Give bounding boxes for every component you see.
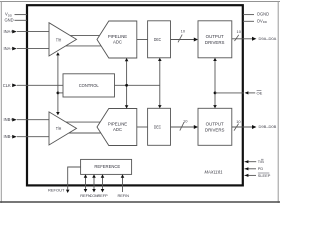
wire clock vertical to PIPELINE ADCs bbox=[126, 60, 128, 106]
bus slash bbox=[234, 124, 239, 131]
wire VDD bbox=[15, 14, 28, 16]
bus D9A-D0A out bbox=[232, 38, 253, 40]
svg-text:INB+: INB+ bbox=[4, 117, 14, 122]
wire PIPELINE A to DEC A bbox=[137, 39, 148, 41]
node OE junction bbox=[214, 92, 217, 95]
bus DEC B to OUTPUT DRIVERS B bbox=[171, 126, 196, 128]
block DEC B bbox=[148, 108, 171, 145]
wire T/H clock vertical bbox=[57, 55, 59, 114]
svg-text:CONTROL: CONTROL bbox=[79, 83, 100, 88]
block CONTROL bbox=[63, 74, 115, 97]
svg-text:T/H: T/H bbox=[56, 126, 61, 131]
bus DEC A to OUTPUT DRIVERS A bbox=[171, 39, 196, 41]
svg-text:INB-: INB- bbox=[4, 134, 13, 139]
wire INB+ bbox=[17, 119, 49, 121]
svg-text:REFIN: REFIN bbox=[117, 193, 129, 198]
svg-text:REFOUT: REFOUT bbox=[48, 187, 65, 192]
block DEC A bbox=[148, 21, 171, 58]
svg-text:OGND: OGND bbox=[257, 12, 269, 17]
wire GND bbox=[15, 19, 28, 21]
svg-text:PIPELINE: PIPELINE bbox=[108, 34, 127, 39]
pin REFOUT bbox=[68, 167, 81, 190]
pin REFIN bbox=[122, 177, 124, 192]
svg-text:DRIVERS: DRIVERS bbox=[205, 127, 225, 132]
svg-text:INA-: INA- bbox=[4, 46, 13, 51]
pin VDD bbox=[5, 12, 13, 18]
pin COM bbox=[93, 177, 95, 190]
svg-text:ADC: ADC bbox=[113, 40, 122, 45]
wire PIPELINE B to DEC B bbox=[137, 126, 148, 128]
wire INA- bbox=[17, 48, 49, 50]
svg-text:PD: PD bbox=[258, 166, 264, 171]
svg-text:DEC: DEC bbox=[154, 124, 161, 129]
pin OGND bbox=[243, 14, 254, 16]
wire clock CONTROL to DEC vertical bbox=[115, 84, 160, 86]
svg-text:OVDD: OVDD bbox=[257, 18, 268, 24]
bus slash bbox=[178, 35, 182, 43]
svg-text:10: 10 bbox=[236, 119, 241, 124]
svg-text:10: 10 bbox=[183, 119, 188, 124]
wire INA+ bbox=[17, 31, 49, 33]
svg-text:T/H: T/H bbox=[56, 37, 61, 42]
svg-text:OUTPUT: OUTPUT bbox=[206, 34, 224, 39]
node T/H clock junction bbox=[57, 92, 60, 95]
svg-text:OE: OE bbox=[257, 90, 263, 95]
chip outline MAX1181 bbox=[27, 5, 243, 185]
wire T/H clock stub to CONTROL bbox=[58, 92, 63, 94]
svg-text:D9A–D0A: D9A–D0A bbox=[259, 36, 277, 41]
svg-text:DEC: DEC bbox=[154, 37, 161, 42]
pin REFN bbox=[85, 177, 87, 190]
wire diff pair B bbox=[65, 122, 103, 133]
svg-text:D9B–D0B: D9B–D0B bbox=[259, 124, 277, 129]
svg-text:REFP: REFP bbox=[97, 193, 108, 198]
svg-text:OUTPUT: OUTPUT bbox=[206, 121, 224, 126]
pin SLEEP bbox=[245, 174, 257, 176]
node clock/ADC junction bbox=[125, 84, 128, 87]
wire INB- bbox=[17, 136, 49, 138]
svg-text:REFERENCE: REFERENCE bbox=[94, 164, 120, 169]
amplifier T/H A bbox=[49, 23, 77, 56]
bus slash bbox=[235, 35, 239, 41]
svg-text:10: 10 bbox=[237, 29, 242, 34]
ADC U1 PIPELINE ADC A bbox=[97, 21, 137, 58]
wire clock vertical to DECs bbox=[159, 60, 161, 106]
amplifier T/H B bbox=[49, 112, 77, 145]
pin PD bbox=[245, 168, 257, 170]
svg-text:CLK: CLK bbox=[3, 83, 11, 88]
block OUTPUT DRIVERS B bbox=[198, 108, 232, 145]
svg-text:SLEEP: SLEEP bbox=[258, 173, 271, 178]
svg-text:INA+: INA+ bbox=[4, 29, 14, 34]
bus D9B-D0B out bbox=[232, 126, 253, 128]
wire clock vertical to OUTPUT DRIVERS bbox=[214, 60, 216, 106]
svg-text:10: 10 bbox=[181, 29, 186, 34]
wire diff pair A bbox=[65, 36, 103, 46]
svg-text:ADC: ADC bbox=[113, 127, 122, 132]
pin T/B bbox=[245, 161, 257, 163]
ADC U2 PIPELINE ADC B bbox=[97, 109, 137, 146]
svg-text:T/B: T/B bbox=[258, 159, 264, 164]
pin OVDD bbox=[243, 20, 254, 22]
svg-text:DRIVERS: DRIVERS bbox=[205, 40, 225, 45]
pin REFP bbox=[102, 177, 104, 190]
svg-text:GND: GND bbox=[5, 17, 14, 22]
svg-text:PIPELINE: PIPELINE bbox=[108, 121, 127, 126]
pin OE bbox=[215, 92, 244, 94]
wire CLK to CONTROL bbox=[17, 84, 63, 86]
block REFERENCE bbox=[81, 159, 132, 174]
block OUTPUT DRIVERS A bbox=[198, 21, 232, 58]
svg-text:MAX1181: MAX1181 bbox=[204, 170, 222, 175]
bus slash bbox=[180, 122, 184, 130]
